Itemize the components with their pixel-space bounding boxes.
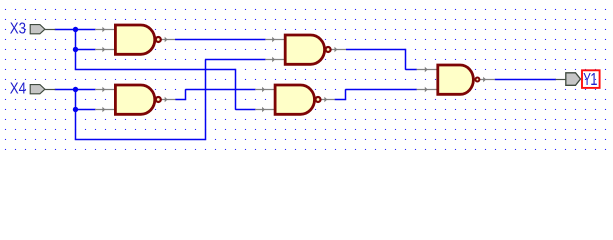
NAND gate U1:A body (115, 25, 154, 54)
NAND gate U1:B input pin A arrow (102, 87, 105, 93)
NAND gate U1:C input pin B arrow (272, 57, 275, 63)
NAND gate U1:D input pin stub A (255, 89, 276, 91)
NAND gate U1:C output inversion bubble (326, 47, 331, 52)
wire X3 branch to G4 input B (236, 109, 256, 111)
wire X3 column to G1 input A (76, 29, 96, 31)
svg-text:1: 1 (590, 70, 597, 89)
input terminal X4 tag (30, 85, 45, 94)
NAND gate U1:C input pin stub A (265, 39, 286, 41)
NAND gate U1:D output pin arrow (324, 97, 327, 103)
wire G3 output horizontal (346, 49, 406, 51)
NAND gate U1:A output inversion bubble (156, 37, 161, 42)
NAND gate U1:B input pin B arrow (102, 107, 105, 113)
NAND gate U1:A input pin stub A (95, 29, 117, 31)
NAND gate U2:A output inversion bubble (475, 78, 479, 82)
NAND gate U1:D input pin B arrow (262, 107, 265, 113)
NAND gate U2:A output pin stub (479, 79, 494, 81)
NAND gate U1:D input pin stub B (255, 109, 276, 111)
wire X3 terminal to junction column (55, 29, 76, 31)
wire G3 output vertical down (405, 49, 407, 70)
NAND gate U1:D output inversion bubble (316, 97, 321, 102)
wire G2 output vertical jog up (185, 90, 187, 101)
NAND gate U2:A input pin A arrow (425, 67, 428, 73)
junction X4 to G2.B node (73, 107, 78, 112)
wire X3 column to G1 input B (76, 49, 96, 51)
NAND gate U1:A input pin B arrow (102, 47, 105, 53)
NAND gate U1:C output pin arrow (335, 47, 338, 53)
NAND gate U2:A input pin stub A (417, 69, 439, 71)
wire G4 output vertical jog up (345, 90, 347, 101)
wire X3 branch vertical down to row109 (235, 69, 237, 110)
NAND gate U1:A output pin arrow (165, 37, 168, 43)
wire G4 output horizontal jog (335, 99, 346, 101)
output terminal Y1 pin wire (556, 79, 567, 81)
wire G1 output to G3 input A (175, 39, 266, 41)
NAND gate U1:B body (115, 85, 154, 114)
svg-text:X4: X4 (10, 80, 26, 98)
NAND gate U1:B input pin stub A (95, 89, 117, 91)
NAND gate U2:A body (438, 65, 474, 94)
NAND gate U1:B output pin stub (161, 99, 175, 101)
input terminal X4 pin wire (45, 89, 55, 91)
NAND gate U1:A input pin stub B (95, 49, 117, 51)
NAND gate U1:D input pin A arrow (262, 87, 265, 93)
output terminal Y1 selection box (582, 70, 600, 88)
wire G4 output to G5 input B (346, 89, 417, 91)
NAND gate U1:B input pin stub B (95, 109, 117, 111)
input terminal X3 tag (30, 25, 45, 34)
NAND gate U1:A input pin A arrow (102, 27, 105, 33)
wire G2 output horizontal jog (175, 99, 185, 101)
NAND gate U1:C input pin A arrow (272, 37, 275, 43)
junction X4 to G2.A node (73, 87, 78, 92)
wire X3 vertical riser (75, 30, 77, 70)
junction X3 to G1.A node (73, 27, 78, 32)
NAND gate U1:B output pin arrow (165, 97, 168, 103)
wire X4 rail to G3 input B (205, 59, 266, 61)
NAND gate U1:D body (275, 85, 314, 114)
wire X4 bottom rail (75, 139, 206, 141)
NAND gate U1:D output pin stub (321, 99, 335, 101)
wire X3 branch horizontal to x235 (75, 69, 236, 71)
wire G2 output to G4 input A (186, 89, 256, 91)
NAND gate U1:C output pin stub (331, 49, 346, 51)
wire G3 output to G5 input A (406, 69, 417, 71)
junction X3 to G1.B node (73, 47, 78, 52)
input terminal X3 pin wire (45, 29, 55, 31)
wire X4 column to G2 input B (76, 109, 96, 111)
wire G5 output to Y1 terminal (495, 79, 556, 81)
NAND gate U2:A input pin stub B (417, 89, 439, 91)
NAND gate U1:B output inversion bubble (156, 97, 161, 102)
wire X4 rail vertical up to row59 (205, 60, 207, 141)
NAND gate U1:C input pin stub B (265, 59, 286, 61)
NAND gate U1:C body (285, 35, 324, 64)
NAND gate U2:A output pin arrow (483, 77, 486, 83)
output terminal Y1 tag (566, 73, 581, 86)
wire X4 column to G2 input A (76, 89, 96, 91)
wire X4 terminal to junction column (55, 89, 76, 91)
wire X4 vertical riser down (75, 90, 77, 140)
NAND gate U1:A output pin stub (161, 39, 175, 41)
NAND gate U2:A input pin B arrow (425, 87, 428, 93)
svg-text:X3: X3 (10, 20, 26, 38)
